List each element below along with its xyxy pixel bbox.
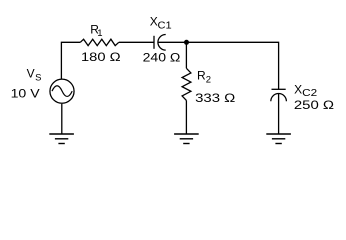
svg-text:240 Ω: 240 Ω [143,51,181,65]
AC source VS circle [50,79,74,103]
wire node down to R2 [185,42,187,68]
ground (XC2 branch) [266,134,291,144]
wire from source top to R1 (left corner) [61,42,80,79]
wire R2 to ground [185,100,187,134]
wire XC1 to node [158,41,187,43]
wire node to XC2 branch (top right corner) [186,42,278,89]
svg-text:333 Ω: 333 Ω [195,91,235,105]
node junction dot [184,40,189,45]
capacitor XC1 [154,35,166,51]
svg-text:S: S [35,72,41,83]
wire source to ground [61,104,63,134]
resistor R2 [182,68,191,100]
svg-text:180 Ω: 180 Ω [81,50,121,64]
capacitor XC2 [271,89,287,101]
wire XC2 to ground [278,94,280,135]
svg-text:V: V [27,66,35,80]
svg-text:10 V: 10 V [11,86,40,100]
svg-text:1: 1 [97,28,102,39]
svg-text:X: X [294,82,302,96]
resistor R1 [80,39,119,45]
wire R1 to XC1 [119,41,154,43]
svg-text:X: X [150,15,158,29]
AC source sine wave [52,86,72,97]
ground (source branch) [49,134,74,144]
svg-text:250 Ω: 250 Ω [294,98,334,112]
svg-text:C1: C1 [158,20,173,31]
ground (R2 branch) [174,134,199,144]
svg-text:R: R [197,69,206,83]
svg-text:2: 2 [206,74,211,85]
